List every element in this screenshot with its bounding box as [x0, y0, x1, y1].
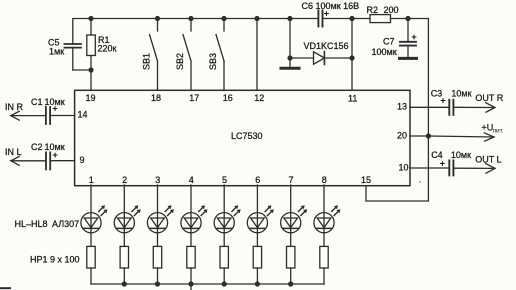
svg-text:13: 13 [397, 102, 407, 112]
svg-text:200: 200 [384, 5, 399, 15]
op-amp/IC U1 LC7530 body [75, 90, 410, 185]
wire OUT L arrow [454, 155, 501, 174]
resistor HP1.2 [120, 246, 128, 268]
diode VD1 КС156 zener [290, 41, 352, 64]
capacitor C7 100мк [372, 19, 418, 58]
svg-text:12: 12 [254, 93, 264, 103]
wire pin 11 riser [351, 19, 353, 90]
svg-text:IN L: IN L [5, 147, 22, 157]
svg-text:C4: C4 [431, 150, 443, 160]
node R1 bottom junction [88, 67, 93, 72]
svg-text:VD1KC156: VD1KC156 [304, 41, 349, 51]
svg-text:HP1 9 x 100: HP1 9 x 100 [30, 255, 80, 265]
svg-text:14: 14 [78, 110, 88, 120]
svg-text:4: 4 [189, 175, 194, 185]
wire LED common rail [91, 283, 324, 285]
svg-text:OUT R: OUT R [475, 93, 503, 103]
switch SB2 [175, 19, 191, 90]
wire pin 8 to LED [323, 185, 325, 246]
scan speck [419, 181, 421, 183]
wire resistor 8 to rail [323, 268, 325, 284]
wire resistor 4 to rail [190, 268, 192, 284]
capacitor C3 10мк + OUT R output [410, 88, 472, 115]
switch SB1 [142, 19, 158, 90]
LED HL5 [214, 205, 241, 233]
svg-text:SB2: SB2 [175, 53, 185, 70]
resistor HP1.1 [87, 246, 95, 268]
svg-text:9: 9 [80, 155, 85, 165]
wire C5 bottom to R1 [73, 69, 91, 71]
svg-text:16: 16 [223, 93, 233, 103]
capacitor C1 10мк + IN R input [31, 97, 75, 124]
svg-text:6: 6 [255, 175, 260, 185]
node zener cathode junction [349, 55, 354, 60]
svg-text:5: 5 [222, 175, 227, 185]
wire OUT R arrow [454, 93, 503, 112]
wire ground rail top [73, 19, 318, 45]
resistor HP1.3 [153, 246, 161, 268]
wire pin 2 to LED [123, 185, 125, 246]
svg-text:HL–HL8: HL–HL8 [15, 219, 48, 229]
svg-text:АЛ307: АЛ307 [52, 219, 79, 229]
svg-text:3: 3 [155, 175, 160, 185]
wire resistor 6 to rail [256, 268, 258, 284]
LED HL4 [181, 205, 208, 233]
svg-text:пит.: пит. [493, 128, 504, 135]
svg-text:SB1: SB1 [142, 53, 152, 70]
svg-text:C6 100мк 16В: C6 100мк 16В [302, 1, 360, 11]
svg-text:18: 18 [151, 93, 161, 103]
wire pin 5 to LED [223, 185, 225, 246]
svg-text:15: 15 [361, 175, 371, 185]
wire resistor 5 to rail [223, 268, 225, 284]
svg-text:+: + [440, 159, 446, 170]
wire rail stub to edge [190, 284, 192, 290]
svg-text:11: 11 [348, 93, 357, 103]
resistor HP1.7 [287, 246, 295, 268]
svg-text:R2: R2 [367, 5, 379, 15]
node SB1 junction [155, 16, 160, 21]
node pin12 junction [254, 16, 259, 21]
node R2-C7 junction [405, 16, 410, 21]
resistor HP1.8 [320, 246, 328, 268]
svg-text:220к: 220к [98, 44, 117, 54]
wire resistor 1 to rail [90, 268, 92, 284]
svg-text:7: 7 [289, 175, 294, 185]
svg-text:20: 20 [397, 130, 407, 140]
LED HL3 [147, 205, 174, 233]
ground under C7 [400, 57, 417, 60]
svg-text:10: 10 [399, 162, 409, 172]
wire pin 3 to LED [157, 185, 159, 246]
wire pin 6 to LED [256, 185, 258, 246]
wire pin 1 to LED [90, 185, 92, 246]
capacitor C2 10мк + IN L input [31, 142, 75, 169]
svg-text:OUT L: OUT L [475, 155, 501, 165]
svg-text:+: + [411, 32, 417, 43]
capacitor C6 100мк 16В [302, 1, 371, 27]
wire pin 20 to +U [410, 135, 428, 137]
svg-text:+U: +U [482, 123, 494, 133]
svg-text:C7: C7 [383, 37, 395, 47]
svg-text:IN R: IN R [5, 102, 24, 112]
svg-text:19: 19 [86, 93, 96, 103]
LED HL7 [281, 205, 308, 233]
node SB3 junction [221, 16, 226, 21]
wire resistor 2 to rail [123, 268, 125, 284]
wire rail down to ground node [289, 19, 291, 59]
svg-text:10мк: 10мк [451, 150, 471, 160]
node pin20 +U junction [426, 133, 431, 138]
svg-text:10мк: 10мк [451, 88, 471, 98]
svg-text:8: 8 [322, 175, 327, 185]
LED HL8 [314, 205, 341, 233]
wire +U supply riser [427, 19, 429, 202]
svg-text:17: 17 [189, 93, 199, 103]
LED HL6 [247, 205, 274, 233]
node diode anode junction [287, 55, 292, 60]
switch SB3 [208, 19, 224, 90]
resistor HP1.6 [253, 246, 261, 268]
wire R1 to pin 19 [90, 70, 92, 90]
resistor R2 200 [367, 5, 429, 23]
capacitor C4 10мк + OUT L output [410, 150, 471, 175]
svg-text:SB3: SB3 [208, 53, 218, 70]
wire resistor 7 to rail [290, 268, 292, 284]
LED HL1 [81, 205, 108, 233]
wire pin 7 to LED [290, 185, 292, 246]
svg-text:2: 2 [122, 175, 127, 185]
node R1 top junction [88, 16, 93, 21]
node rail dots [122, 281, 294, 286]
svg-text:1мк: 1мк [49, 47, 64, 57]
svg-text:10мк: 10мк [45, 142, 65, 152]
LED HL2 [114, 205, 140, 233]
wire IN L arrow [5, 147, 45, 165]
svg-text:1: 1 [89, 175, 94, 185]
resistor HP1.4 [187, 246, 195, 268]
svg-text:C3: C3 [431, 88, 443, 98]
node rail ground tap [287, 16, 292, 21]
svg-text:LC7530: LC7530 [231, 131, 263, 141]
svg-text:100мк: 100мк [372, 47, 397, 57]
scan artifact bottom left [0, 287, 10, 289]
wire pin 15 loop to +U [366, 186, 428, 201]
resistor HP1.5 [220, 246, 228, 268]
ground [281, 58, 299, 68]
capacitor C5 [48, 38, 81, 71]
svg-text:C1: C1 [31, 97, 43, 107]
wire rail to pin 12 [256, 19, 258, 90]
node C6-R2 junction [349, 16, 354, 21]
wire +Uпит arrow [428, 123, 504, 142]
svg-text:10мк: 10мк [45, 97, 65, 107]
wire resistor 3 to rail [157, 268, 159, 284]
node SB2 junction [188, 16, 193, 21]
resistor R1 220к [87, 19, 117, 71]
svg-text:C2: C2 [31, 142, 43, 152]
wire pin 4 to LED [190, 185, 192, 246]
wire IN R arrow [5, 102, 45, 120]
